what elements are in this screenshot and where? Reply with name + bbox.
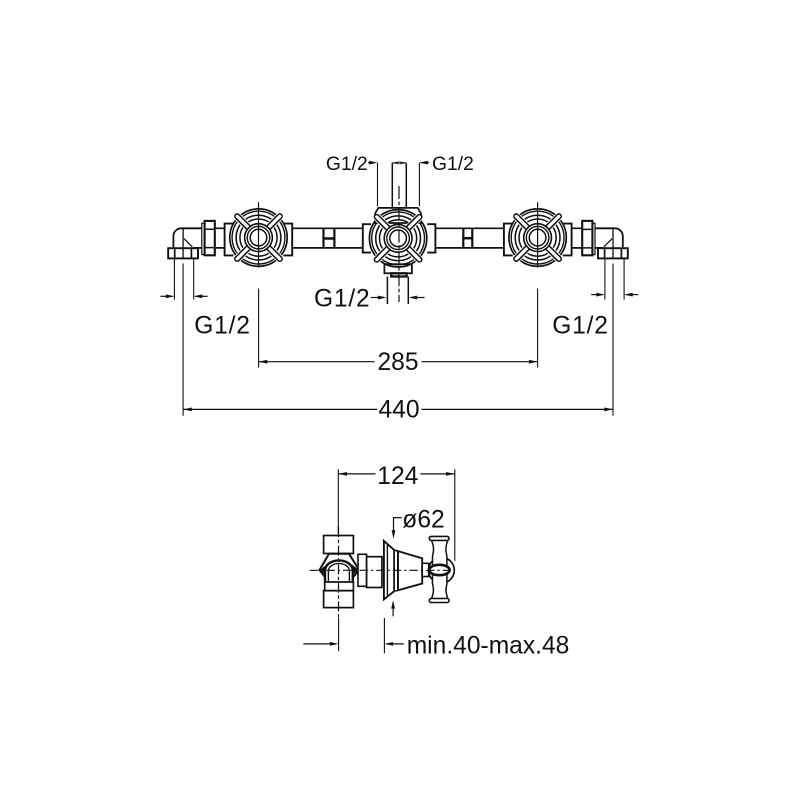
svg-text:G1/2: G1/2 xyxy=(194,313,251,340)
dim o62 bottom arrow xyxy=(392,608,394,617)
svg-text:124: 124 xyxy=(377,463,418,490)
pipe joint H left xyxy=(322,228,335,248)
valve V2 top cap xyxy=(375,208,421,223)
side view wall pipe lower xyxy=(324,591,354,608)
valve V2 bottom collar xyxy=(391,273,406,276)
valve V1 right plate xyxy=(283,224,292,256)
valve V2 bottom pipe xyxy=(387,277,408,305)
side view escutcheon band xyxy=(394,550,398,591)
side view outlet cylinder xyxy=(367,557,382,588)
dim G1/2 left extension lines xyxy=(174,259,193,300)
svg-text:G1/2: G1/2 xyxy=(552,313,609,340)
dim 124 line xyxy=(338,473,454,475)
centerline elbow right xyxy=(612,228,614,258)
centerline elbow left xyxy=(182,228,184,258)
handle wheel V1 xyxy=(230,209,287,266)
elbow left miter diagonal xyxy=(184,239,192,247)
wall flange right xyxy=(598,248,628,258)
valve V2 left plate xyxy=(363,224,371,252)
elbow left xyxy=(173,228,202,248)
wall flange left xyxy=(168,248,198,258)
side view valve hex body xyxy=(320,554,360,582)
valve V2 riser pipe xyxy=(392,163,406,208)
svg-text:285: 285 xyxy=(377,349,418,376)
centerline V3 xyxy=(537,202,539,267)
side view escutcheon rim xyxy=(384,541,394,600)
side view handle front arm ellipse xyxy=(429,565,449,575)
dim 285 extension lines xyxy=(259,289,538,368)
dim min-max extension lines xyxy=(339,618,385,653)
valve V2 bottom cap xyxy=(384,264,412,273)
dim min-max right arrow xyxy=(387,643,404,645)
svg-text:ø62: ø62 xyxy=(402,506,444,533)
valve V2 riser extension lines xyxy=(378,163,420,207)
pipe bottom edge segments xyxy=(215,247,582,249)
side view outlet neck xyxy=(358,554,367,586)
dim 440 extension lines xyxy=(183,264,613,416)
valve V1 left plate xyxy=(225,224,234,256)
handle wheel V2 xyxy=(369,210,426,267)
dim o62 leader and top arrow xyxy=(394,518,402,531)
side view handle bottom knob xyxy=(429,599,449,603)
side view handle top knob xyxy=(429,536,449,540)
centerline V1 xyxy=(258,202,260,267)
elbow right xyxy=(595,228,623,248)
dim 285 line xyxy=(259,361,538,363)
dim G1/2 top-left arrow xyxy=(368,162,375,164)
svg-text:G1/2: G1/2 xyxy=(432,154,474,175)
svg-text:min.40-max.48: min.40-max.48 xyxy=(407,632,570,659)
union nut left xyxy=(202,223,205,254)
dim 440 line xyxy=(183,408,613,410)
dim G1/2 top-right arrow xyxy=(421,162,430,164)
side view escutcheon cone xyxy=(398,551,422,590)
side view bonnet dome inner xyxy=(328,563,349,581)
valve V2 right plate xyxy=(427,224,435,252)
side view vertical centerline xyxy=(338,527,340,618)
side view handle stem xyxy=(422,563,429,576)
side view bonnet dome outer xyxy=(325,560,353,581)
handle wheel V3 xyxy=(509,209,566,266)
svg-text:440: 440 xyxy=(378,397,419,424)
elbow right miter diagonal xyxy=(604,239,612,247)
dim G1/2 right extension lines xyxy=(605,259,624,300)
side view handle hub xyxy=(429,557,455,583)
side view horizontal centerline xyxy=(310,569,455,571)
centerline V2 xyxy=(398,186,400,302)
dim G1/2 bottom-middle arrows xyxy=(371,297,384,299)
union nut right xyxy=(592,223,595,254)
dim G1/2 right arrows xyxy=(591,294,602,296)
pipe joint H right xyxy=(462,228,473,248)
side view collar under hex xyxy=(325,582,354,591)
dim 124 extension lines xyxy=(338,469,455,561)
side view handle vertical arms xyxy=(432,540,448,598)
svg-text:G1/2: G1/2 xyxy=(314,285,371,312)
valve V3 right plate xyxy=(563,224,572,256)
pipe top edge segments xyxy=(215,228,582,248)
svg-text:G1/2: G1/2 xyxy=(326,154,368,175)
side view wall pipe upper xyxy=(324,536,354,554)
valve V3 left plate xyxy=(504,224,513,256)
dim G1/2 top middle arrows xyxy=(392,162,406,164)
dim G1/2 left arrows xyxy=(160,295,172,297)
dim min-max left arrow xyxy=(303,643,336,645)
